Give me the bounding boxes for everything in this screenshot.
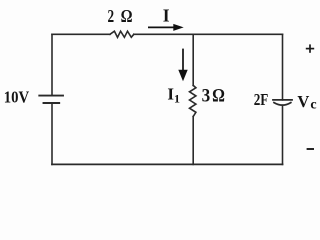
wire top-left segment	[52, 33, 110, 35]
svg-text:Ω: Ω	[121, 6, 133, 26]
wire right upper	[282, 34, 284, 100]
wire left upper	[51, 34, 53, 95]
capacitor 2F top plate	[273, 99, 292, 101]
svg-text:10V: 10V	[4, 87, 30, 106]
svg-text:3: 3	[202, 87, 211, 107]
resistor 3Ω zigzag	[190, 85, 196, 116]
battery 10V bottom plate	[44, 102, 60, 104]
label 2Ω	[108, 6, 133, 26]
current arrow I (top)	[148, 24, 184, 31]
svg-text:2F: 2F	[254, 90, 269, 109]
minus sign (capacitor polarity)	[307, 148, 314, 150]
wire left lower	[51, 103, 53, 164]
wire middle branch upper	[192, 34, 194, 85]
wire right lower	[282, 105, 284, 164]
current arrow I1 (middle branch)	[178, 49, 187, 82]
wire middle branch lower	[192, 117, 194, 165]
capacitor 2F curved bottom plate	[274, 103, 291, 106]
svg-text:I: I	[163, 6, 170, 26]
resistor 2Ω zigzag	[110, 31, 134, 37]
svg-text:I1: I1	[167, 84, 180, 105]
wire bottom	[52, 163, 283, 165]
svg-text:2: 2	[108, 6, 115, 26]
svg-text:Vc: Vc	[297, 92, 316, 113]
wire top-right segment	[134, 33, 283, 35]
plus sign (capacitor polarity)	[306, 44, 314, 52]
svg-text:Ω: Ω	[212, 87, 225, 107]
label 3Ω	[202, 87, 225, 107]
battery 10V top plate	[39, 95, 63, 97]
